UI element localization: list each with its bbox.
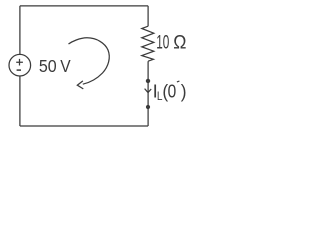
svg-text:): ) (181, 80, 187, 101)
svg-text:Ω: Ω (173, 32, 186, 53)
svg-text:0: 0 (168, 80, 177, 101)
svg-text:50: 50 (39, 56, 57, 76)
svg-text:10: 10 (156, 32, 169, 53)
svg-text:V: V (60, 56, 71, 76)
